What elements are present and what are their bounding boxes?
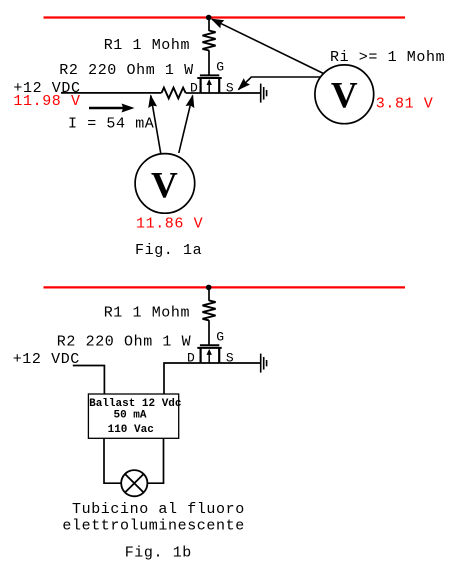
lamp X diagonal 2 bbox=[125, 474, 143, 492]
wire: +12 VDC to ballast corner bbox=[73, 366, 105, 395]
svg-text:R1 1 Mohm: R1 1 Mohm bbox=[104, 37, 190, 54]
wire: R1 to gate fig 1b bbox=[208, 320, 210, 344]
power rail (red) fig 1a bbox=[44, 16, 406, 18]
MOSFET channel bar fig 1b bbox=[197, 347, 221, 349]
svg-text:G: G bbox=[216, 330, 224, 345]
resistor R1 fig 1a bbox=[203, 31, 216, 51]
wire: under MOSFET fig 1b bbox=[201, 362, 220, 364]
svg-text:elettroluminescente: elettroluminescente bbox=[62, 517, 244, 534]
wire: source to ground bbox=[219, 92, 260, 94]
wire: drain to ballast corner bbox=[164, 363, 201, 394]
voltmeter V2 circle (bottom, across R2) bbox=[135, 154, 195, 214]
probe line V2 left bbox=[146, 94, 161, 155]
svg-text:+12 VDC: +12 VDC bbox=[13, 351, 80, 368]
wire: ballast to lamp right bbox=[147, 438, 163, 483]
svg-text:V: V bbox=[151, 166, 178, 207]
wire: R1 to gate bbox=[208, 50, 210, 74]
svg-text:R1 1 Mohm: R1 1 Mohm bbox=[104, 305, 190, 322]
MOSFET drain leg bbox=[200, 78, 202, 93]
wire: R2 to drain bbox=[186, 92, 201, 94]
svg-text:Ri >= 1 Mohm: Ri >= 1 Mohm bbox=[330, 49, 445, 66]
svg-text:Tubicino al fluoro: Tubicino al fluoro bbox=[72, 501, 245, 518]
svg-text:Fig. 1b: Fig. 1b bbox=[125, 544, 192, 561]
svg-text:Ballast 12 Vdc: Ballast 12 Vdc bbox=[89, 398, 181, 410]
wire: rail to R1 bbox=[208, 18, 210, 32]
MOSFET source leg bbox=[218, 78, 220, 93]
svg-text:110 Vac: 110 Vac bbox=[108, 424, 154, 436]
probe wire V1 to rail node bbox=[209, 15, 324, 74]
svg-text:R2 220 Ohm 1 W: R2 220 Ohm 1 W bbox=[57, 334, 191, 351]
svg-text:V: V bbox=[331, 75, 358, 116]
lamp circle bbox=[121, 470, 147, 496]
ground fig 1a bbox=[261, 84, 267, 103]
svg-text:I = 54 mA: I = 54 mA bbox=[68, 116, 154, 133]
current arrow I bbox=[89, 104, 135, 113]
wire: source to ground fig 1b bbox=[219, 362, 260, 364]
probe wire V1 to source bbox=[234, 77, 320, 94]
svg-text:3.81 V: 3.81 V bbox=[376, 95, 434, 112]
lamp X diagonal 1 bbox=[125, 474, 143, 492]
ballast transformer box bbox=[88, 394, 178, 438]
probe line V2 right bbox=[179, 93, 198, 153]
ground fig 1b bbox=[261, 354, 267, 373]
wire: +12 VDC to R2 bbox=[61, 92, 162, 94]
wire: rail to R1 fig 1b bbox=[208, 287, 210, 301]
svg-text:R2 220 Ohm 1 W: R2 220 Ohm 1 W bbox=[59, 62, 193, 79]
svg-text:50 mA: 50 mA bbox=[114, 410, 147, 422]
MOSFET source leg fig 1b bbox=[218, 348, 220, 363]
svg-text:Fig. 1a: Fig. 1a bbox=[135, 242, 202, 259]
MOSFET substrate arrow bbox=[207, 79, 212, 93]
node: R1 top junction dot fig 1b bbox=[206, 285, 212, 291]
MOSFET drain leg fig 1b bbox=[200, 348, 202, 363]
resistor R1 fig 1b bbox=[203, 300, 216, 320]
svg-text:G: G bbox=[216, 60, 224, 75]
transistor Q2 MOSFET gate bar fig 1b bbox=[200, 344, 219, 346]
voltmeter V1 circle (right, gate-source) bbox=[315, 65, 374, 124]
power rail (red) fig 1b bbox=[44, 286, 406, 288]
svg-text:11.98 V: 11.98 V bbox=[13, 93, 80, 110]
transistor Q1 MOSFET gate bar bbox=[200, 74, 219, 76]
resistor R2 fig 1a bbox=[162, 88, 186, 99]
MOSFET substrate arrow fig 1b bbox=[207, 349, 212, 363]
wire: ballast to lamp left bbox=[104, 438, 121, 483]
MOSFET channel bar bbox=[197, 77, 221, 79]
wire: under MOSFET (drain to source) bbox=[201, 92, 220, 94]
node: R1 top junction dot bbox=[206, 15, 212, 21]
svg-text:11.86 V: 11.86 V bbox=[136, 216, 203, 233]
